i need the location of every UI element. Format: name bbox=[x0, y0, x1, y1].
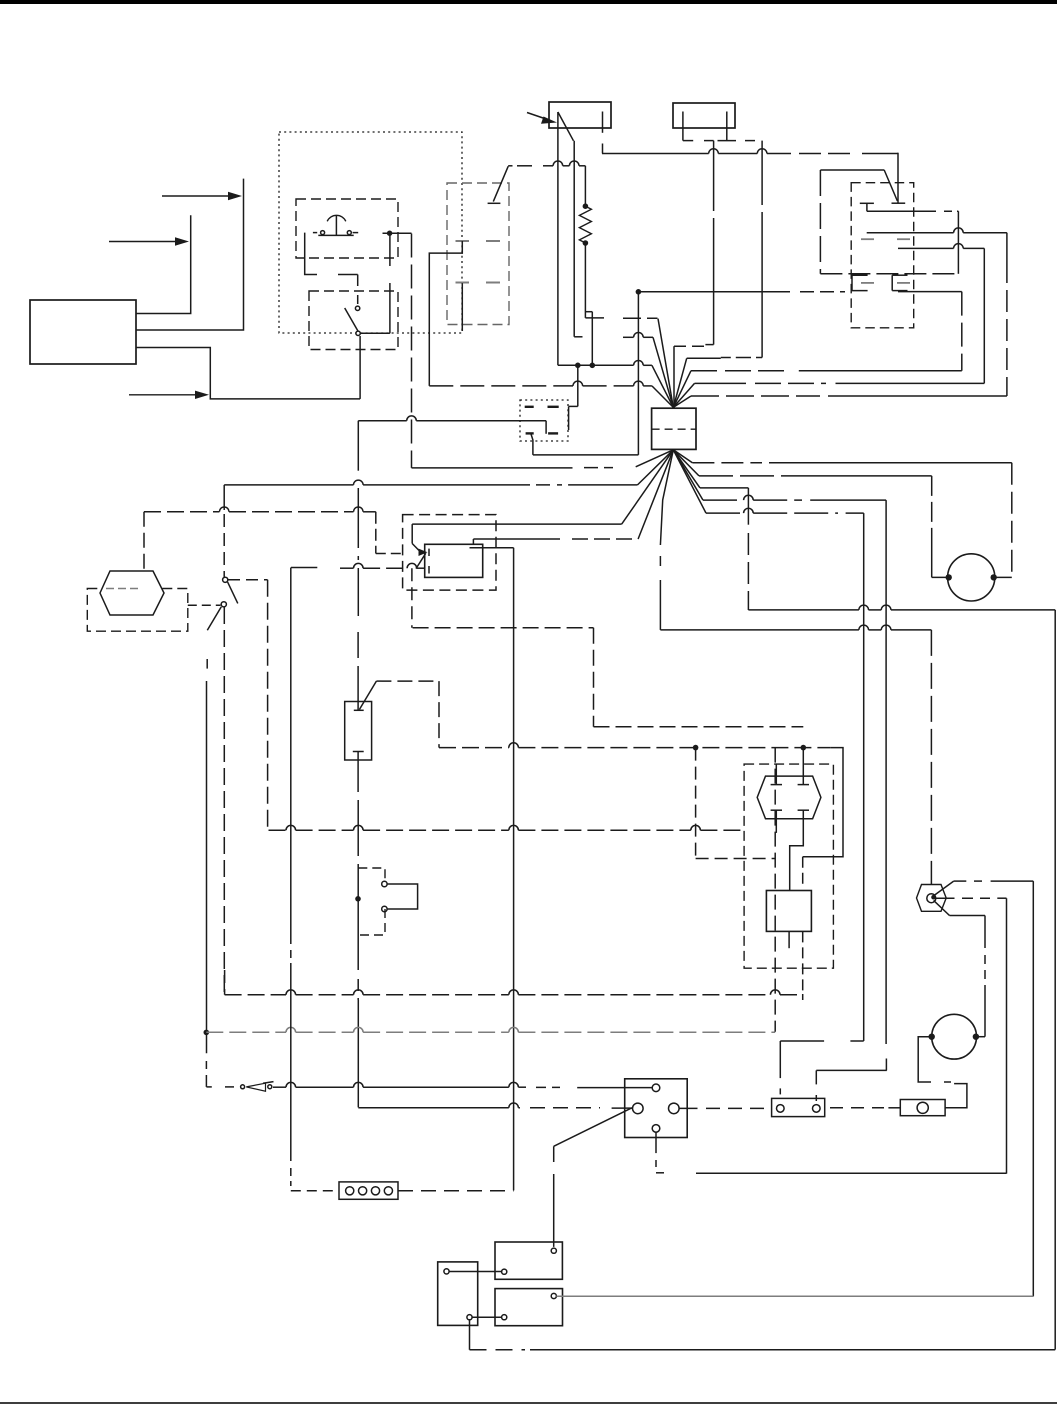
connector C2 (dotted) bbox=[520, 400, 568, 441]
C3 pin top bbox=[652, 1084, 660, 1092]
wire C4 left lead bbox=[291, 1168, 339, 1191]
wire B-drop X886 bbox=[885, 500, 887, 1070]
wire brake drop X291 bbox=[290, 568, 292, 1162]
PTO bracket bbox=[803, 748, 843, 857]
bus Y1296 (gray) bbox=[556, 1295, 1033, 1297]
wire X748 drop bbox=[747, 488, 749, 610]
node brake junction bbox=[355, 896, 361, 902]
wire Y485 from C1 (seat feed) bbox=[224, 450, 673, 485]
C2 pins row1 bbox=[525, 406, 559, 408]
wire battery ground bbox=[136, 348, 360, 399]
wire ground riser X931 bbox=[930, 630, 932, 885]
wire F1 pin right bbox=[602, 112, 604, 154]
wire R1 lead down bbox=[585, 243, 604, 318]
key switch box (dashed) bbox=[851, 183, 914, 328]
key pin B bbox=[861, 238, 910, 240]
C3 pin right bbox=[669, 1103, 680, 1114]
fuse holder F2 bbox=[673, 103, 735, 128]
bus Y630 (ground) bbox=[660, 625, 931, 630]
key switch blade bbox=[884, 153, 905, 204]
arrow to wire 1 bbox=[109, 237, 189, 245]
wire key B drop bbox=[1006, 233, 1008, 396]
wire battery terminal 2 bbox=[136, 179, 244, 330]
wire starter left lead bbox=[932, 476, 949, 578]
accessory switch pins (row 1) bbox=[456, 240, 501, 242]
wire Y318 into C1 bbox=[623, 318, 673, 407]
module M1 bbox=[425, 544, 483, 577]
C5 pin b bbox=[502, 1269, 507, 1274]
wire key D-right drop bbox=[898, 292, 962, 371]
C4 pins bbox=[346, 1187, 393, 1195]
wire Y346 (to F2 drop) bbox=[674, 345, 707, 347]
wire key pin B (Y233) bbox=[867, 228, 1007, 233]
wire push-button left lead bbox=[305, 233, 358, 304]
arrow to ground wire bbox=[129, 391, 209, 399]
wire J1 to toggle switch bbox=[389, 233, 391, 333]
PTO pin 4 bbox=[790, 810, 809, 890]
wire Y358 from C1 bbox=[673, 358, 739, 408]
wire fuse F3 left lead bbox=[830, 1107, 900, 1109]
wire right-edge drop bbox=[1054, 610, 1056, 1350]
node R1 bottom bbox=[583, 240, 589, 246]
wire F2 pin left bbox=[683, 112, 714, 141]
wire diode pack drop bbox=[802, 857, 804, 1000]
wire GND east (Y898) bbox=[935, 897, 1006, 899]
diode pack D2box bbox=[766, 891, 811, 932]
wire A-drop X864 bbox=[863, 513, 865, 1041]
wire C1 ground drop bbox=[660, 450, 673, 630]
bus Y1173 bbox=[696, 1172, 1007, 1174]
wire C7b drop bbox=[469, 1320, 471, 1350]
C3 pin bottom bbox=[652, 1125, 660, 1133]
wire X554 drop bbox=[553, 1146, 555, 1247]
console enclosure (dotted) bbox=[279, 132, 462, 333]
bus D2 Y1032 (gray dashed) bbox=[206, 1027, 775, 1032]
node Y748-a bbox=[693, 745, 699, 751]
PTO clutch box (dashed) bbox=[744, 764, 833, 968]
resistor R1 bbox=[579, 206, 591, 243]
hour meter terminal right bbox=[973, 1034, 979, 1040]
F1 switch blade bbox=[558, 112, 574, 141]
battery B1 bbox=[30, 300, 136, 364]
wire push-button right lead bbox=[353, 232, 412, 235]
fuse holder F1 bbox=[549, 102, 611, 128]
wire GND to hour meter bbox=[934, 900, 985, 1036]
connector C1 (main harness) bbox=[652, 408, 696, 449]
C7 pin b bbox=[467, 1315, 472, 1320]
wire R1 branch bbox=[585, 312, 592, 366]
wire C7b-C6b bbox=[472, 1316, 502, 1318]
node D2 left bbox=[204, 1030, 210, 1036]
wire X514 main drop bbox=[513, 548, 515, 1191]
wire X268 drop bbox=[267, 580, 269, 830]
wire X376 drop bbox=[375, 512, 377, 554]
accessory switch pins (row 2) bbox=[456, 282, 501, 284]
C2 pins row2 bbox=[526, 432, 559, 434]
fuel solenoid box (dashed) bbox=[87, 589, 188, 632]
page bottom rule bbox=[0, 1402, 1057, 1404]
wire F2 drop left bbox=[705, 141, 713, 345]
wire Y371 from C1 bbox=[673, 371, 962, 408]
node B+ junction bbox=[636, 289, 642, 295]
connector C6 bbox=[495, 1289, 563, 1326]
wire X775 drop bbox=[774, 748, 776, 1032]
wire Y476 from C1 bbox=[673, 450, 931, 476]
wire R1 lead up bbox=[584, 166, 586, 206]
page top border bar bbox=[0, 0, 1057, 4]
connector C4 bbox=[339, 1182, 398, 1199]
push-button PB1 bbox=[318, 215, 353, 235]
wire key pin A (Y211) bbox=[867, 210, 959, 212]
wire X1033 drop bbox=[1032, 881, 1034, 1296]
wire Y628 (dashed) bbox=[413, 627, 594, 629]
PTO pin 2 bbox=[798, 748, 809, 785]
wire C2 to H4 bbox=[531, 434, 638, 455]
hour meter terminal left bbox=[929, 1034, 935, 1040]
connector C7 bbox=[438, 1262, 478, 1326]
wire Y396 from C1 bbox=[673, 396, 1007, 407]
resistor R2 leader bbox=[359, 681, 439, 748]
wire Y512 (dashed) bbox=[144, 507, 376, 512]
fuse F3 bbox=[900, 1100, 945, 1116]
wire F1 pin left (to H1) bbox=[557, 112, 559, 365]
node R1 top bbox=[583, 203, 589, 209]
brake switch S4 bbox=[358, 868, 417, 935]
wire J1 drop bbox=[411, 234, 413, 468]
wire seat riser bbox=[223, 485, 225, 577]
key pin D-left bbox=[852, 275, 868, 290]
bus Y610 bbox=[748, 605, 1055, 610]
wire TB1 right riser bbox=[816, 1070, 887, 1104]
arrow to wire 2 bbox=[162, 192, 242, 200]
terminal block TB1 bbox=[772, 1098, 825, 1116]
node Y748-b bbox=[801, 745, 807, 751]
C7 pin a bbox=[444, 1269, 449, 1274]
interlock diode D1 bbox=[225, 1082, 274, 1092]
wire module dashed drop bbox=[411, 568, 413, 628]
wire C7a-C5b bbox=[449, 1271, 502, 1273]
ground stud GND1 bbox=[917, 885, 947, 912]
hour meter M3 bbox=[932, 1014, 977, 1059]
wire X593 drop bbox=[593, 628, 595, 727]
seat switch S3 bbox=[207, 577, 238, 630]
push-button box (dashed) bbox=[296, 199, 398, 258]
wire D1 riser bbox=[224, 970, 226, 995]
module input arrow bbox=[412, 524, 427, 569]
wire S3 blade drop bbox=[206, 659, 211, 1087]
node H1-a bbox=[575, 363, 581, 369]
wire accessory-blade to resistor (Y166) bbox=[517, 161, 585, 166]
accessory switch box (dashed) bbox=[447, 183, 509, 325]
wire C3 right lead bbox=[679, 1107, 766, 1109]
C6 pin a bbox=[551, 1293, 556, 1298]
bus Y1087 bbox=[273, 1082, 652, 1087]
C5 pin a bbox=[551, 1248, 556, 1253]
toggle switch box (dashed) bbox=[309, 291, 398, 350]
in-line resistor R2 bbox=[345, 702, 372, 761]
starter terminal right bbox=[991, 574, 997, 580]
bus Y1350 bbox=[470, 1349, 1056, 1351]
wire key C drop bbox=[983, 248, 985, 383]
wire Y727 (dashed) bbox=[594, 726, 804, 728]
wire battery terminal 1 bbox=[136, 215, 191, 313]
module box (dashed) bbox=[403, 515, 496, 591]
wire B+ drop to H4 bbox=[637, 292, 639, 455]
wire key feed bracket bbox=[820, 170, 884, 274]
PTO pin 3 bbox=[771, 810, 782, 833]
bus wire Y153 bbox=[602, 149, 898, 154]
wire Y488 from C1 bbox=[673, 450, 748, 488]
node J1 bbox=[387, 231, 392, 236]
fuel solenoid inner dash bbox=[106, 588, 140, 590]
diode pack stub bbox=[788, 931, 790, 948]
wire GND to right edge (Y881) bbox=[933, 881, 1033, 896]
C6 pin b bbox=[502, 1315, 507, 1320]
wire X696 drop bbox=[696, 748, 775, 859]
wire Y463 from C1 bbox=[673, 450, 1012, 463]
wire key pin C (Y248) bbox=[898, 244, 984, 249]
wire Y468 from C1 bbox=[412, 450, 674, 468]
connector C5 bbox=[495, 1242, 562, 1279]
PTO clutch Y2 (hexagon) bbox=[757, 776, 821, 819]
wire F2 drop right bbox=[739, 141, 762, 358]
node H1-b bbox=[590, 363, 596, 369]
wire hour meter left lead bbox=[918, 1037, 967, 1108]
wire Y524 from C1 (module feed) bbox=[412, 450, 673, 524]
wire C3 top-left diagonal bbox=[554, 1108, 632, 1147]
wire seat common drop bbox=[223, 607, 225, 995]
TB1 pin right bbox=[813, 1105, 821, 1113]
toggle switch S2 bbox=[345, 306, 361, 335]
key pin A bbox=[860, 203, 874, 211]
wire Y421 to C2 bbox=[358, 416, 546, 434]
wire S2 drop bbox=[357, 421, 359, 1108]
wire S2 output bbox=[361, 332, 390, 334]
connector C3 bbox=[625, 1079, 688, 1138]
wire H1 (Y365) into C1 bbox=[558, 360, 673, 407]
key pin D-right bbox=[892, 275, 907, 290]
fuel solenoid Y1 (hexagon) bbox=[100, 571, 164, 615]
wire module out riser bbox=[470, 539, 514, 548]
wire solenoid to seat switch bbox=[188, 604, 221, 606]
wire F2 pin right bbox=[718, 112, 756, 141]
wire H1a to C2 bbox=[569, 365, 578, 430]
key pin C bbox=[861, 282, 910, 284]
wire starter right lead bbox=[994, 463, 1012, 578]
wire Y500 from C1 bbox=[673, 450, 886, 500]
wire F1 blade output bbox=[574, 141, 582, 337]
wire S2 to battery ground bbox=[359, 336, 361, 399]
wire H2 (Y386) into C1 bbox=[429, 381, 673, 407]
starter terminal left bbox=[946, 574, 952, 580]
wire C1 center riser bbox=[673, 346, 675, 407]
wire accessory pin1 bbox=[429, 241, 462, 386]
arrow to F1 switch bbox=[527, 113, 557, 124]
wire Y539 module out bbox=[473, 450, 673, 539]
wire Y337 into C1 bbox=[623, 332, 673, 407]
accessory switch blade bbox=[488, 166, 513, 204]
wire C3 bottom lead bbox=[656, 1132, 668, 1173]
wire seat harness (Y553) bbox=[376, 553, 403, 555]
wire seat NC branch bbox=[228, 579, 268, 581]
wire TB1 left riser bbox=[780, 1041, 863, 1097]
wire accessory pin2 bbox=[461, 283, 463, 331]
bus D1 Y995 (dashed) bbox=[225, 990, 803, 995]
bus Y1108 west bbox=[358, 1103, 632, 1108]
bus Y748 (dashed) bbox=[439, 743, 830, 748]
C3 pin left bbox=[633, 1103, 644, 1114]
starter motor M2 bbox=[948, 554, 995, 601]
wire C4 right lead bbox=[398, 1190, 514, 1192]
wire B+ to key D-left bbox=[638, 291, 845, 293]
PTO pin 1 bbox=[771, 764, 782, 785]
wire module pin2 (Y568) bbox=[291, 563, 425, 568]
wire Y383 from C1 bbox=[673, 383, 984, 407]
module pin ticks bbox=[428, 549, 430, 574]
bus Y830 (dashed) bbox=[269, 825, 745, 830]
wire X1006 drop bbox=[1006, 898, 1008, 1173]
TB1 pin left bbox=[777, 1105, 785, 1113]
wire X144 drop bbox=[143, 512, 145, 588]
wire key accessory return bbox=[820, 211, 958, 274]
wire Y513 from C1 bbox=[673, 450, 863, 513]
